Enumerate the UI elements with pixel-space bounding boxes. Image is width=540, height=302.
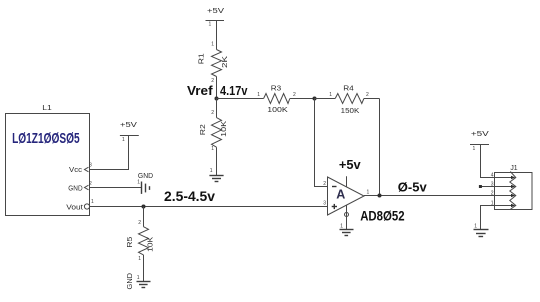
wire J1 pin3 stub — [482, 186, 495, 188]
resistor R1 2K — [198, 42, 229, 85]
svg-text:+5V: +5V — [207, 8, 224, 15]
wire R2 to ground — [216, 147, 218, 175]
svg-text:R2: R2 — [200, 124, 207, 135]
wire junction to R5 — [143, 207, 145, 227]
wire feedback vertical to output node — [379, 99, 381, 196]
wire op-amp power stub — [346, 176, 348, 187]
pad circle on op-amp V- stub — [345, 213, 349, 217]
wire J1 pin1 to ground — [481, 206, 495, 230]
svg-text:1: 1 — [137, 180, 140, 186]
no-connect square on J1 pin3 — [479, 185, 482, 188]
wire R3 to node B — [290, 98, 315, 100]
svg-text:3: 3 — [89, 163, 92, 169]
resistor R3 100K — [257, 85, 296, 114]
resistor R4 150K — [329, 86, 369, 115]
ground (rotated) at L1 GND pin — [137, 173, 153, 194]
svg-text:4.17v: 4.17v — [220, 83, 248, 98]
svg-text:Ø-5v: Ø-5v — [398, 180, 428, 195]
svg-text:GND: GND — [138, 173, 153, 180]
svg-text:2: 2 — [293, 92, 296, 98]
wire Vout to op-amp non-inverting input — [90, 206, 328, 208]
svg-text:AD8Ø52: AD8Ø52 — [360, 208, 405, 224]
power +5V top (Vref divider supply) — [206, 8, 225, 28]
svg-text:Vref: Vref — [187, 83, 213, 98]
wire node B to R4 — [315, 98, 336, 100]
svg-text:2: 2 — [89, 181, 92, 187]
svg-text:1: 1 — [367, 190, 370, 196]
svg-text:1: 1 — [122, 137, 125, 143]
svg-text:2: 2 — [491, 191, 494, 197]
wire op-amp V- stub — [346, 205, 348, 229]
node output junction — [378, 194, 382, 198]
svg-text:1: 1 — [474, 224, 477, 230]
svg-text:1: 1 — [138, 256, 141, 262]
svg-text:+5v: +5v — [339, 157, 362, 172]
svg-text:1: 1 — [91, 199, 94, 205]
svg-text:100K: 100K — [267, 107, 288, 114]
power +5V near J1 — [470, 131, 489, 152]
svg-text:1: 1 — [340, 224, 343, 230]
node Vref junction — [215, 97, 219, 101]
svg-text:1: 1 — [329, 92, 332, 98]
wire Vref node to R3 — [217, 98, 264, 100]
svg-text:10K: 10K — [148, 237, 155, 252]
wire R5 to ground — [143, 255, 145, 282]
svg-text:1: 1 — [211, 42, 214, 48]
wire node B down to inverting input — [315, 99, 328, 187]
svg-text:1: 1 — [209, 22, 212, 28]
svg-text:1: 1 — [257, 92, 260, 98]
svg-text:R3: R3 — [271, 85, 282, 92]
svg-text:Vcc: Vcc — [69, 167, 83, 174]
svg-text:1: 1 — [211, 146, 214, 152]
svg-text:3: 3 — [323, 201, 326, 207]
svg-text:A: A — [336, 187, 345, 201]
svg-text:Vout: Vout — [66, 205, 83, 212]
svg-text:10K: 10K — [221, 120, 228, 136]
wire Vref node to R2 — [216, 99, 218, 118]
svg-text:LØ1Z1ØØSØ5: LØ1Z1ØØSØ5 — [12, 130, 80, 147]
svg-text:2.5-4.5v: 2.5-4.5v — [164, 189, 215, 204]
svg-text:J1: J1 — [510, 165, 517, 172]
svg-text:2: 2 — [323, 181, 326, 187]
wire R4 to feedback corner — [364, 98, 380, 100]
svg-text:1: 1 — [210, 168, 213, 174]
power +5V near L1 — [120, 122, 139, 143]
svg-text:R1: R1 — [198, 53, 205, 64]
resistor R2 10K — [200, 110, 228, 152]
node B junction (R3/R4/inverting input) — [313, 97, 317, 101]
svg-text:2: 2 — [138, 220, 141, 226]
wire J1 pin4 to +5V — [481, 145, 495, 178]
connector J1 — [491, 165, 532, 210]
resistor R5 10K — [127, 220, 155, 262]
svg-text:+5V: +5V — [471, 131, 489, 138]
wire +5V bar to R1 — [216, 21, 218, 50]
wire R1 to node Vref — [216, 77, 218, 99]
node R5 junction — [142, 205, 146, 209]
svg-text:R4: R4 — [343, 86, 354, 93]
ground below R5 — [127, 273, 151, 290]
wire GND pin to ground — [90, 187, 142, 189]
svg-text:1: 1 — [473, 146, 476, 152]
wire Vcc pin to +5V — [90, 136, 129, 170]
svg-text:150K: 150K — [341, 108, 360, 115]
op-amp U1 AD8052 — [328, 177, 365, 215]
ground below op-amp — [340, 224, 354, 236]
svg-text:+5V: +5V — [120, 122, 137, 129]
svg-text:L1: L1 — [42, 105, 52, 112]
svg-text:GND: GND — [68, 185, 82, 192]
svg-text:R5: R5 — [127, 237, 134, 248]
wire op-amp output to J1 pin 2 — [364, 195, 494, 197]
svg-text:GND: GND — [127, 273, 134, 290]
ground below R2 — [209, 168, 223, 182]
component L1 box — [6, 105, 95, 216]
svg-text:2: 2 — [366, 92, 369, 98]
ground below J1 — [474, 224, 489, 237]
svg-text:2: 2 — [211, 110, 214, 116]
svg-text:1: 1 — [137, 275, 140, 281]
svg-text:2K: 2K — [222, 56, 229, 68]
